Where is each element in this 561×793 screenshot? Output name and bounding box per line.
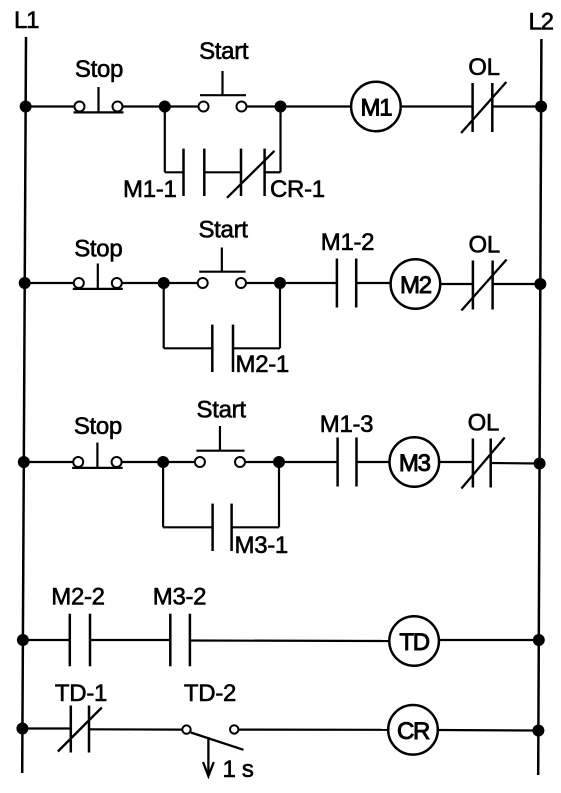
timed contact TD-2 blade [191, 733, 244, 750]
label Stop rung 3 [74, 413, 122, 440]
pushbutton Start rung 1 (NO) [199, 71, 247, 112]
label CR-1 [270, 176, 325, 203]
wire rung 1: Stop to node [123, 105, 165, 107]
label M3-1 [235, 532, 288, 559]
label L1 [14, 7, 39, 34]
wire rung 1: node B1 to coil M1 [281, 105, 351, 107]
svg-text:CR: CR [397, 718, 430, 745]
label Start rung 1 [199, 38, 249, 65]
svg-text:CR-1: CR-1 [270, 176, 325, 203]
label TD-1 [55, 680, 107, 707]
svg-text:OL: OL [468, 410, 499, 437]
label M2-2 [51, 584, 104, 611]
pushbutton Stop rung 1 (NC) [74, 87, 124, 112]
coil TD [389, 616, 439, 666]
svg-text:TD-2: TD-2 [184, 680, 236, 707]
wire rung 5: TD-2 to coil CR [239, 728, 388, 730]
junction dot rung 4 at L2 rail [533, 634, 545, 646]
wire rung 2: node to Start [164, 282, 197, 284]
label OL rung 3 [468, 410, 499, 437]
wire branch 1 right riser [279, 107, 281, 173]
svg-text:Stop: Stop [75, 56, 123, 83]
wire branch 1 left drop [164, 107, 166, 173]
contact M1-1 (NO) [184, 149, 205, 196]
junction dot rung 1 at L2 rail [535, 101, 547, 113]
wire branch 1: M1-1 to CR-1 [204, 171, 241, 173]
junction dot rung 5 at L1 rail [16, 723, 28, 735]
node B2 (junction after Start, rung 2) [274, 277, 286, 289]
coil M1 [351, 82, 401, 132]
pushbutton Start rung 3 (NO) [195, 426, 245, 467]
junction dot rung 1 at L1 rail [20, 101, 32, 113]
wire rung 2: Stop to node [122, 282, 163, 284]
wire rung 5: TD-1 to TD-2 [89, 728, 182, 730]
label Start rung 3 [197, 397, 247, 424]
wire rung 1: OL to L2 rail [492, 105, 541, 107]
wire rung 3: L1 rail to Stop [24, 461, 73, 463]
pushbutton Stop rung 3 (NC) [72, 443, 122, 468]
contact CR-1 (NC) [227, 149, 275, 198]
wire rung 3: M1-3 to coil M3 [357, 461, 390, 463]
svg-text:M2-1: M2-1 [236, 351, 289, 378]
svg-text:TD-1: TD-1 [55, 680, 107, 707]
label Stop rung 2 [74, 236, 122, 263]
overload contact OL rung 2 (NC) [461, 260, 506, 311]
wire rung 4: M3-2 to coil TD [190, 639, 389, 642]
svg-text:Start: Start [198, 217, 248, 244]
label M1-2 [321, 229, 374, 256]
wire branch 2 left drop [163, 283, 165, 348]
label OL rung 2 [469, 232, 500, 259]
label Stop rung 1 [75, 56, 123, 83]
label M3-2 [153, 584, 206, 611]
wire rung 2: OL to L2 rail [493, 283, 541, 285]
label OL rung 1 [468, 54, 499, 81]
wire branch 2 right riser [279, 283, 281, 348]
label TD-2 [184, 680, 236, 707]
wire rung 1: coil M1 to OL [402, 105, 473, 107]
wire rung 1: Start to node [247, 105, 280, 107]
wire branch 3 left drop [162, 462, 164, 527]
wire rung 3: Start to node [246, 461, 279, 463]
timed contact TD-2 fixed circle [230, 725, 238, 733]
wire rung 2: L1 rail to Stop [25, 282, 73, 284]
contact M2-2 (NO) [70, 614, 90, 667]
svg-text:M3-1: M3-1 [235, 532, 288, 559]
junction dot rung 2 at L2 rail [534, 278, 546, 290]
label M1-1 [123, 176, 176, 203]
pushbutton Stop rung 2 (NC) [73, 264, 123, 289]
wire rung 3: OL to L2 rail [491, 462, 540, 465]
overload contact OL rung 3 (NC) [461, 438, 504, 489]
node A1 (junction after Stop, rung 1) [159, 101, 171, 113]
svg-text:Start: Start [197, 397, 247, 424]
pushbutton Start rung 2 (NO) [198, 248, 246, 289]
wire rung 4: M2-2 to M3-2 [90, 639, 170, 641]
wire rung 2: node B2 to contact M1-2 [280, 282, 337, 284]
svg-text:OL: OL [469, 232, 500, 259]
svg-text:1 s: 1 s [223, 756, 254, 783]
svg-text:OL: OL [468, 54, 499, 81]
wire rung 3: coil M3 to OL [439, 461, 473, 463]
wire branch 3: M3-1 to riser [232, 526, 279, 528]
svg-text:Start: Start [199, 38, 249, 65]
node B1 (junction after Start, rung 1) [275, 101, 287, 113]
power rail L2 (right vertical rail) [538, 39, 541, 775]
power rail L1 (left vertical rail) [22, 37, 26, 773]
label Start rung 2 [198, 217, 248, 244]
svg-text:Stop: Stop [74, 413, 122, 440]
wire rung 3: node B3 to contact M1-3 [279, 461, 338, 463]
wire rung 4: L1 rail to contact M2-2 [23, 639, 70, 641]
wire rung 5: L1 rail to contact TD-1 [22, 727, 70, 729]
contact M1-3 (NO) [338, 438, 357, 487]
wire rung 4: coil TD to L2 rail [439, 639, 539, 641]
node B3 (junction after Start, rung 3) [273, 456, 285, 468]
coil M3 [390, 437, 440, 487]
wire rung 2: M1-2 to coil M2 [356, 282, 390, 284]
wire rung 3: node to Start [163, 461, 194, 463]
label M2-1 [236, 351, 289, 378]
wire rung 1: node to Start [165, 105, 198, 107]
coil CR [388, 705, 438, 755]
coil M2 [391, 259, 441, 309]
svg-text:M2: M2 [400, 272, 432, 299]
wire branch 2: M2-1 to riser [233, 347, 280, 349]
svg-text:M2-2: M2-2 [51, 584, 104, 611]
wire rung 2: Start to node [247, 282, 280, 284]
contact M1-2 (NO) [337, 259, 356, 308]
wire branch 1: CR-1 to riser [265, 171, 281, 173]
wire branch 1: left to contact M1-1 [165, 171, 184, 173]
svg-text:L2: L2 [529, 9, 554, 36]
wire branch 2: left to contact M2-1 [164, 347, 213, 349]
label M1-3 [320, 411, 373, 438]
label L2 [529, 9, 554, 36]
contact TD-1 (NC) [58, 706, 102, 753]
svg-text:L1: L1 [14, 7, 39, 34]
wire rung 5: coil CR to L2 rail [438, 729, 539, 732]
svg-text:M3: M3 [399, 450, 431, 477]
junction dot rung 3 at L2 rail [534, 458, 546, 470]
junction dot rung 5 at L2 rail [532, 725, 544, 737]
svg-text:M1-2: M1-2 [321, 229, 374, 256]
overload contact OL rung 1 (NC) [461, 82, 506, 133]
timed contact TD-2 (NOTC) pivot circle [182, 725, 190, 733]
label 1 s (time delay) [223, 756, 254, 783]
wire branch 3 right riser [278, 462, 280, 527]
wire rung 2: coil M2 to OL [441, 283, 473, 285]
node A3 (junction after Stop, rung 3) [157, 456, 169, 468]
timer arrow of TD-2 [203, 737, 214, 776]
wire branch 3: left to contact M3-1 [163, 526, 213, 528]
junction dot rung 2 at L1 rail [19, 277, 31, 289]
svg-text:M1-3: M1-3 [320, 411, 373, 438]
svg-text:M1: M1 [361, 95, 393, 122]
svg-text:M1-1: M1-1 [123, 176, 176, 203]
contact M3-1 (NO) [213, 504, 232, 551]
contact M2-1 (NO) [212, 325, 233, 372]
node A2 (junction after Stop, rung 2) [158, 277, 170, 289]
svg-text:TD: TD [399, 629, 429, 656]
contact M3-2 (NO) [170, 614, 190, 667]
wire rung 1: L1 rail to Stop [26, 105, 74, 107]
wire rung 3: Stop to node [122, 461, 163, 463]
svg-text:Stop: Stop [74, 236, 122, 263]
svg-text:M3-2: M3-2 [153, 584, 206, 611]
junction dot rung 3 at L1 rail [18, 456, 30, 468]
junction dot rung 4 at L1 rail [17, 634, 29, 646]
